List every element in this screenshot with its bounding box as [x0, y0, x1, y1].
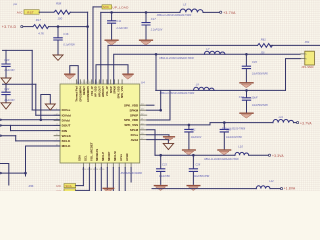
svg-text:BCLK: BCLK: [62, 139, 71, 143]
wire loop A top (IOVss bypass): [3, 49, 33, 51]
wire SDA to pin: [76, 185, 84, 187]
svg-text:10uF/50V/NP0: 10uF/50V/NP0: [252, 104, 268, 107]
wire SPKM riser: [160, 90, 162, 110]
junction C28 tap: [192, 154, 195, 157]
capacitor C10 lead upper: [246, 90, 248, 97]
capacitor C17 lead upper: [145, 12, 147, 22]
wire L11 to port: [294, 122, 297, 124]
svg-text:DIN: DIN: [62, 129, 68, 133]
capacitor C16 lead upper: [57, 27, 59, 38]
junction C26 tap: [223, 121, 226, 124]
svg-text:AIC: AIC: [17, 10, 23, 14]
svg-text:10uF/50V/X5R: 10uF/50V/X5R: [194, 175, 210, 178]
capacitor C22 lead upper: [5, 84, 7, 91]
ground solid triangle (IC top-left): [65, 73, 75, 75]
capacitor C21 lead upper: [188, 125, 190, 129]
wire R17 to junction: [49, 26, 88, 28]
wire SDA pin vertical: [82, 168, 84, 186]
svg-text:U4: U4: [141, 81, 145, 85]
IC left pin stubs: [54, 110, 60, 146]
capacitor C26 lead lower: [223, 133, 225, 150]
connector JP2 pin1 stub: [300, 53, 305, 55]
capacitor C15 lead upper: [245, 54, 247, 65]
IC top pin stubs: [77, 80, 123, 84]
capacitor C17 plates: [142, 23, 150, 25]
junction C15 tap: [245, 53, 248, 56]
capacitor C21 plates: [185, 129, 193, 132]
svg-text:SPK_VSS: SPK_VSS: [120, 86, 124, 98]
svg-text:MCLK: MCLK: [62, 144, 72, 148]
svg-text:SPK_VSS: SPK_VSS: [124, 123, 138, 127]
resistor R17: [33, 25, 49, 29]
svg-text:Thermal Pad: Thermal Pad: [75, 86, 79, 102]
svg-text:SPK_VDD: SPK_VDD: [116, 86, 120, 98]
wire RESET vertical to IC pin: [87, 12, 89, 84]
IC bottom pin stubs: [83, 163, 131, 168]
ferrite bead L5: [180, 9, 203, 12]
capacitor C28 lead lower: [192, 172, 194, 184]
svg-text:C28: C28: [195, 162, 200, 166]
wire IOVss pin row: [32, 109, 60, 111]
port +1.8VA: [280, 188, 282, 190]
port stubs left edge: [0, 119, 2, 121]
svg-text:FB6A-11-201S0=A00SA00-T/R00: FB6A-11-201S0=A00SA00-T/R00: [157, 14, 192, 17]
wire R61 to edge: [271, 44, 320, 46]
background sheet: [0, 0, 320, 191]
port +5VA: [297, 122, 299, 124]
port +3.7VA: [220, 11, 222, 13]
svg-text:IOVdd: IOVdd: [62, 113, 71, 117]
ground solid triangle (C17): [140, 39, 153, 41]
capacitor C15 plates: [242, 66, 250, 68]
svg-text:RST: RST: [27, 10, 34, 14]
svg-text:R08: R08: [56, 2, 62, 6]
svg-text:C15: C15: [252, 60, 257, 64]
ground bar triangle (C15): [240, 82, 253, 84]
wire SPKP pin row: [147, 119, 170, 121]
svg-text:FB6A-11-201S0-T/R08: FB6A-11-201S0-T/R08: [222, 127, 246, 130]
svg-text:P04: P04: [305, 41, 310, 44]
wire MCLK vertical: [25, 146, 27, 176]
svg-text:0.1uF/50V: 0.1uF/50V: [63, 44, 75, 47]
junction DVdd: [40, 119, 43, 122]
wire MIC label to vertical: [93, 6, 102, 8]
wire AVss pin to gnd: [147, 140, 169, 144]
svg-text:HP_VDD: HP_VDD: [94, 86, 98, 97]
wire gnd loop top-right of IC: [96, 65, 128, 84]
svg-text:SCL: SCL: [83, 155, 87, 161]
svg-text:SPKM: SPKM: [113, 86, 117, 94]
wire HPVDD rail vertical to IC pin: [100, 12, 102, 84]
wire SPKP riser: [169, 90, 171, 120]
junction C11 tap: [110, 11, 113, 14]
svg-text:L5: L5: [183, 3, 186, 7]
svg-text:10uF/10V/X5R: 10uF/10V/X5R: [226, 136, 242, 139]
capacitor C23 lead lower: [160, 172, 162, 184]
ground solid triangle (C28): [187, 185, 200, 187]
ferrite bead L9: [194, 87, 215, 90]
svg-text:10uF: 10uF: [251, 96, 257, 100]
svg-text:SDA: SDA: [65, 184, 72, 188]
svg-text:MIC: MIC: [103, 5, 109, 9]
junction C17 tap: [145, 11, 148, 14]
svg-text:MICLP: MICLP: [101, 152, 105, 161]
svg-text:10uF/50V/NP0: 10uF/50V/NP0: [252, 72, 268, 75]
ferrite bead L11: [273, 119, 294, 122]
svg-text:SPLM: SPLM: [130, 128, 139, 132]
capacitor C16 lead lower: [57, 41, 59, 55]
svg-text:C20: C20: [4, 58, 9, 62]
wire DIN jog vertical: [10, 125, 12, 130]
wire AVss pin vertical: [124, 168, 126, 192]
svg-text:L12: L12: [269, 179, 274, 183]
svg-text:+1.8VA: +1.8VA: [284, 187, 296, 191]
ground solid triangle (C21): [183, 149, 196, 151]
wire MICRP pin vertical: [112, 168, 114, 192]
wire gnd loop top-left of IC: [70, 66, 78, 84]
svg-text:C17: C17: [151, 17, 156, 21]
ground open triangle (DVdd loop): [45, 104, 55, 110]
wire SCL to pin: [76, 189, 90, 191]
wire VOL pin vertical: [94, 168, 96, 192]
wire port to R17: [23, 26, 33, 28]
svg-text:R36: R36: [29, 184, 34, 188]
capacitor C23 plates: [157, 169, 165, 172]
junction C21 tap: [188, 124, 191, 127]
ground solid triangle (C26): [218, 149, 231, 151]
svg-text:GPIO1/MFP4: GPIO1/MFP4: [78, 86, 82, 102]
wire AVdd pin to rail: [147, 130, 155, 155]
wire MICLP pin vertical: [106, 168, 108, 192]
svg-text:DOUT: DOUT: [62, 124, 71, 128]
wire UP_LOAD vertical to IC pin: [92, 7, 94, 84]
connector JP2 pin2 stub: [300, 58, 305, 60]
op-amp / codec IC U4 body: [60, 84, 140, 163]
junction SPK row1 tap: [155, 53, 158, 56]
connector JP2 body: [305, 51, 315, 65]
svg-text:C22: C22: [4, 87, 9, 91]
svg-text:+3.7V-D: +3.7V-D: [2, 25, 17, 29]
wire AVdd rail: [155, 154, 235, 156]
svg-text:R61: R61: [261, 38, 266, 42]
wire BCLK row: [16, 140, 60, 142]
svg-text:FB6A-11-201S0=A00SA00-T/R00: FB6A-11-201S0=A00SA00-T/R00: [159, 57, 194, 60]
capacitor C23 lead upper: [160, 155, 162, 168]
junction C16 tap: [57, 25, 60, 28]
resistor R61: [258, 44, 273, 48]
wire L5 to port: [203, 11, 219, 13]
svg-text:L7: L7: [206, 47, 209, 51]
svg-text:C10: C10: [239, 95, 244, 99]
svg-text:RESET: RESET: [82, 86, 86, 95]
svg-text:MICRP: MICRP: [107, 152, 111, 161]
svg-text:R17: R17: [36, 18, 42, 22]
wire HPL long net (top): [108, 45, 258, 84]
wire SCL pin vertical: [88, 168, 90, 191]
svg-text:LDOIN/MFP5: LDOIN/MFP5: [86, 86, 90, 102]
svg-text:JP2-SMD: JP2-SMD: [301, 66, 313, 69]
svg-text:SPKM: SPKM: [130, 108, 139, 112]
wire loop B top (IOVdd bypass): [3, 83, 36, 85]
capacitor C11 lead upper: [111, 12, 113, 20]
svg-text:VOL_4P: VOL_4P: [105, 86, 109, 96]
svg-text:L9: L9: [196, 83, 199, 87]
wire IOVdd pin row: [36, 114, 60, 116]
ground bar triangle (C10): [240, 112, 253, 114]
svg-text:SPKP: SPKP: [109, 86, 113, 93]
svg-text:VSS_4P: VSS_4P: [90, 86, 94, 96]
net label SCL yellow box: [64, 189, 76, 193]
ferrite bead L7: [204, 51, 225, 54]
ground solid triangle (C11): [105, 39, 118, 41]
net label MIC yellow box: [102, 5, 112, 9]
junction MCLK branch: [24, 172, 27, 175]
svg-text:2.2uF/16V: 2.2uF/16V: [115, 27, 128, 30]
wire SPK row2: [156, 89, 286, 91]
svg-text:L10: L10: [238, 145, 243, 149]
svg-text:HPROUT: HPROUT: [101, 86, 105, 97]
capacitor C16 plates: [54, 38, 62, 40]
ground open triangle (AVss): [163, 143, 173, 149]
ground bar (bottom bus): [103, 187, 113, 189]
svg-text:AVdd: AVdd: [125, 153, 129, 161]
wire DIN row: [11, 130, 61, 132]
svg-text:I2C: I2C: [56, 189, 61, 191]
wire MCLK row: [26, 145, 61, 147]
port +3.3VA: [268, 154, 270, 156]
wire loop A vertical: [31, 50, 33, 110]
ground open triangle (C20): [1, 78, 11, 84]
svg-text:+3.3VA: +3.3VA: [272, 154, 284, 158]
ground open triangle (C22): [1, 103, 11, 109]
capacitor C26 lead upper: [223, 123, 225, 129]
svg-text:J06: J06: [261, 51, 266, 54]
svg-text:100: 100: [58, 17, 63, 21]
net label SDA yellow box: [64, 184, 76, 188]
wire DVdd gnd rectangle: [41, 95, 51, 120]
wire MICLM pin vertical: [118, 168, 120, 192]
svg-text:WCLK: WCLK: [62, 134, 72, 138]
IC right pin stubs: [140, 105, 147, 139]
svg-text:DVss: DVss: [131, 133, 139, 137]
net label RST yellow box: [24, 10, 39, 15]
wire DVdd row: [1, 119, 61, 121]
capacitor C10 plates: [242, 98, 250, 100]
svg-text:I2C: I2C: [56, 184, 61, 188]
wire L10 to port: [249, 154, 269, 156]
wire SPK_VDD pin row: [147, 104, 154, 106]
capacitor C28 plates: [189, 169, 197, 172]
svg-text:FB6A-11-201S0=A00SA00-T/R00: FB6A-11-201S0=A00SA00-T/R00: [204, 158, 239, 161]
wire lower-left L bend: [1, 164, 9, 186]
svg-text:AVdd: AVdd: [131, 138, 139, 142]
junction C23 tap: [159, 154, 162, 157]
capacitor C28 lead upper: [192, 155, 194, 168]
svg-text:SPK_VDD: SPK_VDD: [124, 118, 139, 122]
wire bottom 1.8V rail: [152, 188, 256, 190]
wire loop B vertical: [35, 84, 37, 115]
junction C10 tap: [245, 89, 248, 92]
svg-text:MICBIAS: MICBIAS: [95, 149, 99, 161]
svg-text:DVdd: DVdd: [62, 119, 70, 123]
wire R08 to RESET vertical: [70, 11, 87, 13]
wire DOUT row: [1, 124, 61, 126]
wire HPR net to speaker row: [114, 54, 301, 84]
wire DVss pin to gnd: [147, 135, 169, 137]
wire L12 to port: [270, 188, 280, 190]
svg-text:IOVss: IOVss: [62, 108, 71, 112]
capacitor C21 lead lower: [188, 133, 190, 150]
capacitor C22 plates: [2, 92, 10, 94]
svg-text:SDA: SDA: [77, 154, 81, 161]
junction RESET pullup: [86, 25, 89, 28]
wire JP2 pin2 to row2: [286, 59, 301, 91]
ferrite bead L10: [235, 152, 249, 155]
capacitor C20 lead lower: [5, 67, 7, 78]
wire vertical row1-row2: [155, 54, 157, 90]
capacitor C20 lead upper: [5, 50, 7, 63]
wire RST box to R08: [39, 11, 54, 13]
junction SPKM: [159, 109, 162, 112]
capacitor C20 plates: [2, 64, 10, 66]
wire BCLK jog vertical: [15, 136, 17, 141]
capacitor C10 lead lower: [246, 101, 248, 113]
capacitor C11 plates: [108, 21, 116, 23]
svg-text:+3.7VA: +3.7VA: [300, 121, 312, 125]
svg-text:C21: C21: [191, 127, 196, 131]
svg-text:4.7K: 4.7K: [38, 31, 44, 35]
capacitor C15 lead lower: [245, 69, 247, 82]
ground solid triangle (IC top-right): [123, 73, 133, 75]
svg-text:HPLOUT: HPLOUT: [97, 86, 101, 97]
svg-text:UP_LOAD: UP_LOAD: [112, 6, 129, 10]
capacitor C26 plates: [220, 129, 228, 132]
svg-text:C11: C11: [116, 19, 121, 23]
svg-text:41 40 39 38 37 36 35 34: 41 40 39 38 37 36 35 34: [77, 82, 102, 84]
wire AVdd pin vertical: [130, 168, 132, 183]
svg-text:C23: C23: [162, 162, 167, 166]
svg-text:AVss: AVss: [119, 154, 123, 161]
wire HPVDD rail horizontal: [101, 11, 180, 13]
ground bar triangle (DVss): [164, 136, 175, 138]
svg-text:VOL_MICDET: VOL_MICDET: [89, 142, 93, 161]
svg-text:10uF/16V: 10uF/16V: [191, 136, 202, 139]
wire SPK_VDD2 rail left: [147, 123, 273, 125]
capacitor C17 lead lower: [145, 26, 147, 40]
capacitor C11 lead lower: [111, 24, 113, 40]
ground solid triangle (C23): [154, 185, 167, 187]
wire MCLK branch to edge: [1, 172, 26, 174]
ground open triangle (C16): [53, 55, 63, 60]
svg-text:+3.7VA: +3.7VA: [223, 11, 236, 15]
ferrite bead L12: [256, 186, 270, 189]
resistor R08: [54, 10, 70, 14]
wire MICBIAS pin vertical: [100, 168, 102, 192]
svg-text:2.2uF/16V: 2.2uF/16V: [150, 29, 163, 32]
svg-text:SPKP: SPKP: [130, 113, 138, 117]
svg-text:L11: L11: [279, 115, 284, 119]
svg-text:SPK_VDD: SPK_VDD: [124, 103, 139, 107]
svg-text:FB6A-11-201S0=A00SA00-T/R00: FB6A-11-201S0=A00SA00-T/R00: [160, 92, 195, 95]
wire SPKM pin row: [147, 109, 161, 111]
svg-text:C16: C16: [63, 32, 68, 36]
capacitor C22 lead lower: [5, 95, 7, 102]
svg-text:MICLM: MICLM: [113, 151, 117, 161]
wire WCLK row from edge: [1, 135, 16, 137]
